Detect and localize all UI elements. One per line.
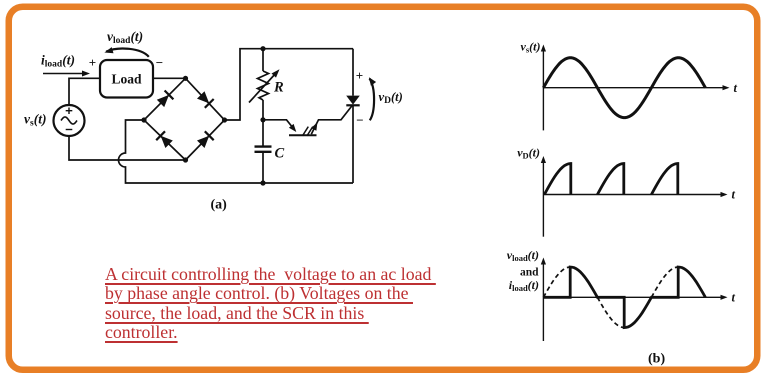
svg-text:Load: Load bbox=[111, 71, 142, 86]
svg-text:vs(t): vs(t) bbox=[521, 40, 541, 55]
svg-text:vD(t): vD(t) bbox=[379, 90, 403, 106]
svg-text:t: t bbox=[734, 81, 738, 95]
svg-text:+: + bbox=[89, 55, 96, 70]
svg-text:t: t bbox=[732, 188, 736, 202]
svg-text:−: − bbox=[356, 113, 363, 128]
svg-text:−: − bbox=[156, 55, 163, 70]
svg-text:vD(t): vD(t) bbox=[517, 145, 540, 160]
svg-text:(a): (a) bbox=[211, 197, 228, 212]
svg-text:iload(t): iload(t) bbox=[41, 53, 75, 70]
svg-text:vload(t): vload(t) bbox=[107, 29, 143, 46]
svg-text:vload(t): vload(t) bbox=[507, 248, 539, 263]
svg-text:C: C bbox=[275, 146, 285, 162]
svg-text:vs(t): vs(t) bbox=[24, 112, 46, 129]
svg-text:+: + bbox=[356, 68, 363, 83]
svg-text:(b): (b) bbox=[648, 352, 665, 367]
svg-text:t: t bbox=[732, 290, 736, 304]
svg-text:iload(t): iload(t) bbox=[509, 278, 539, 293]
svg-text:and: and bbox=[520, 267, 539, 279]
svg-text:R: R bbox=[273, 80, 284, 96]
